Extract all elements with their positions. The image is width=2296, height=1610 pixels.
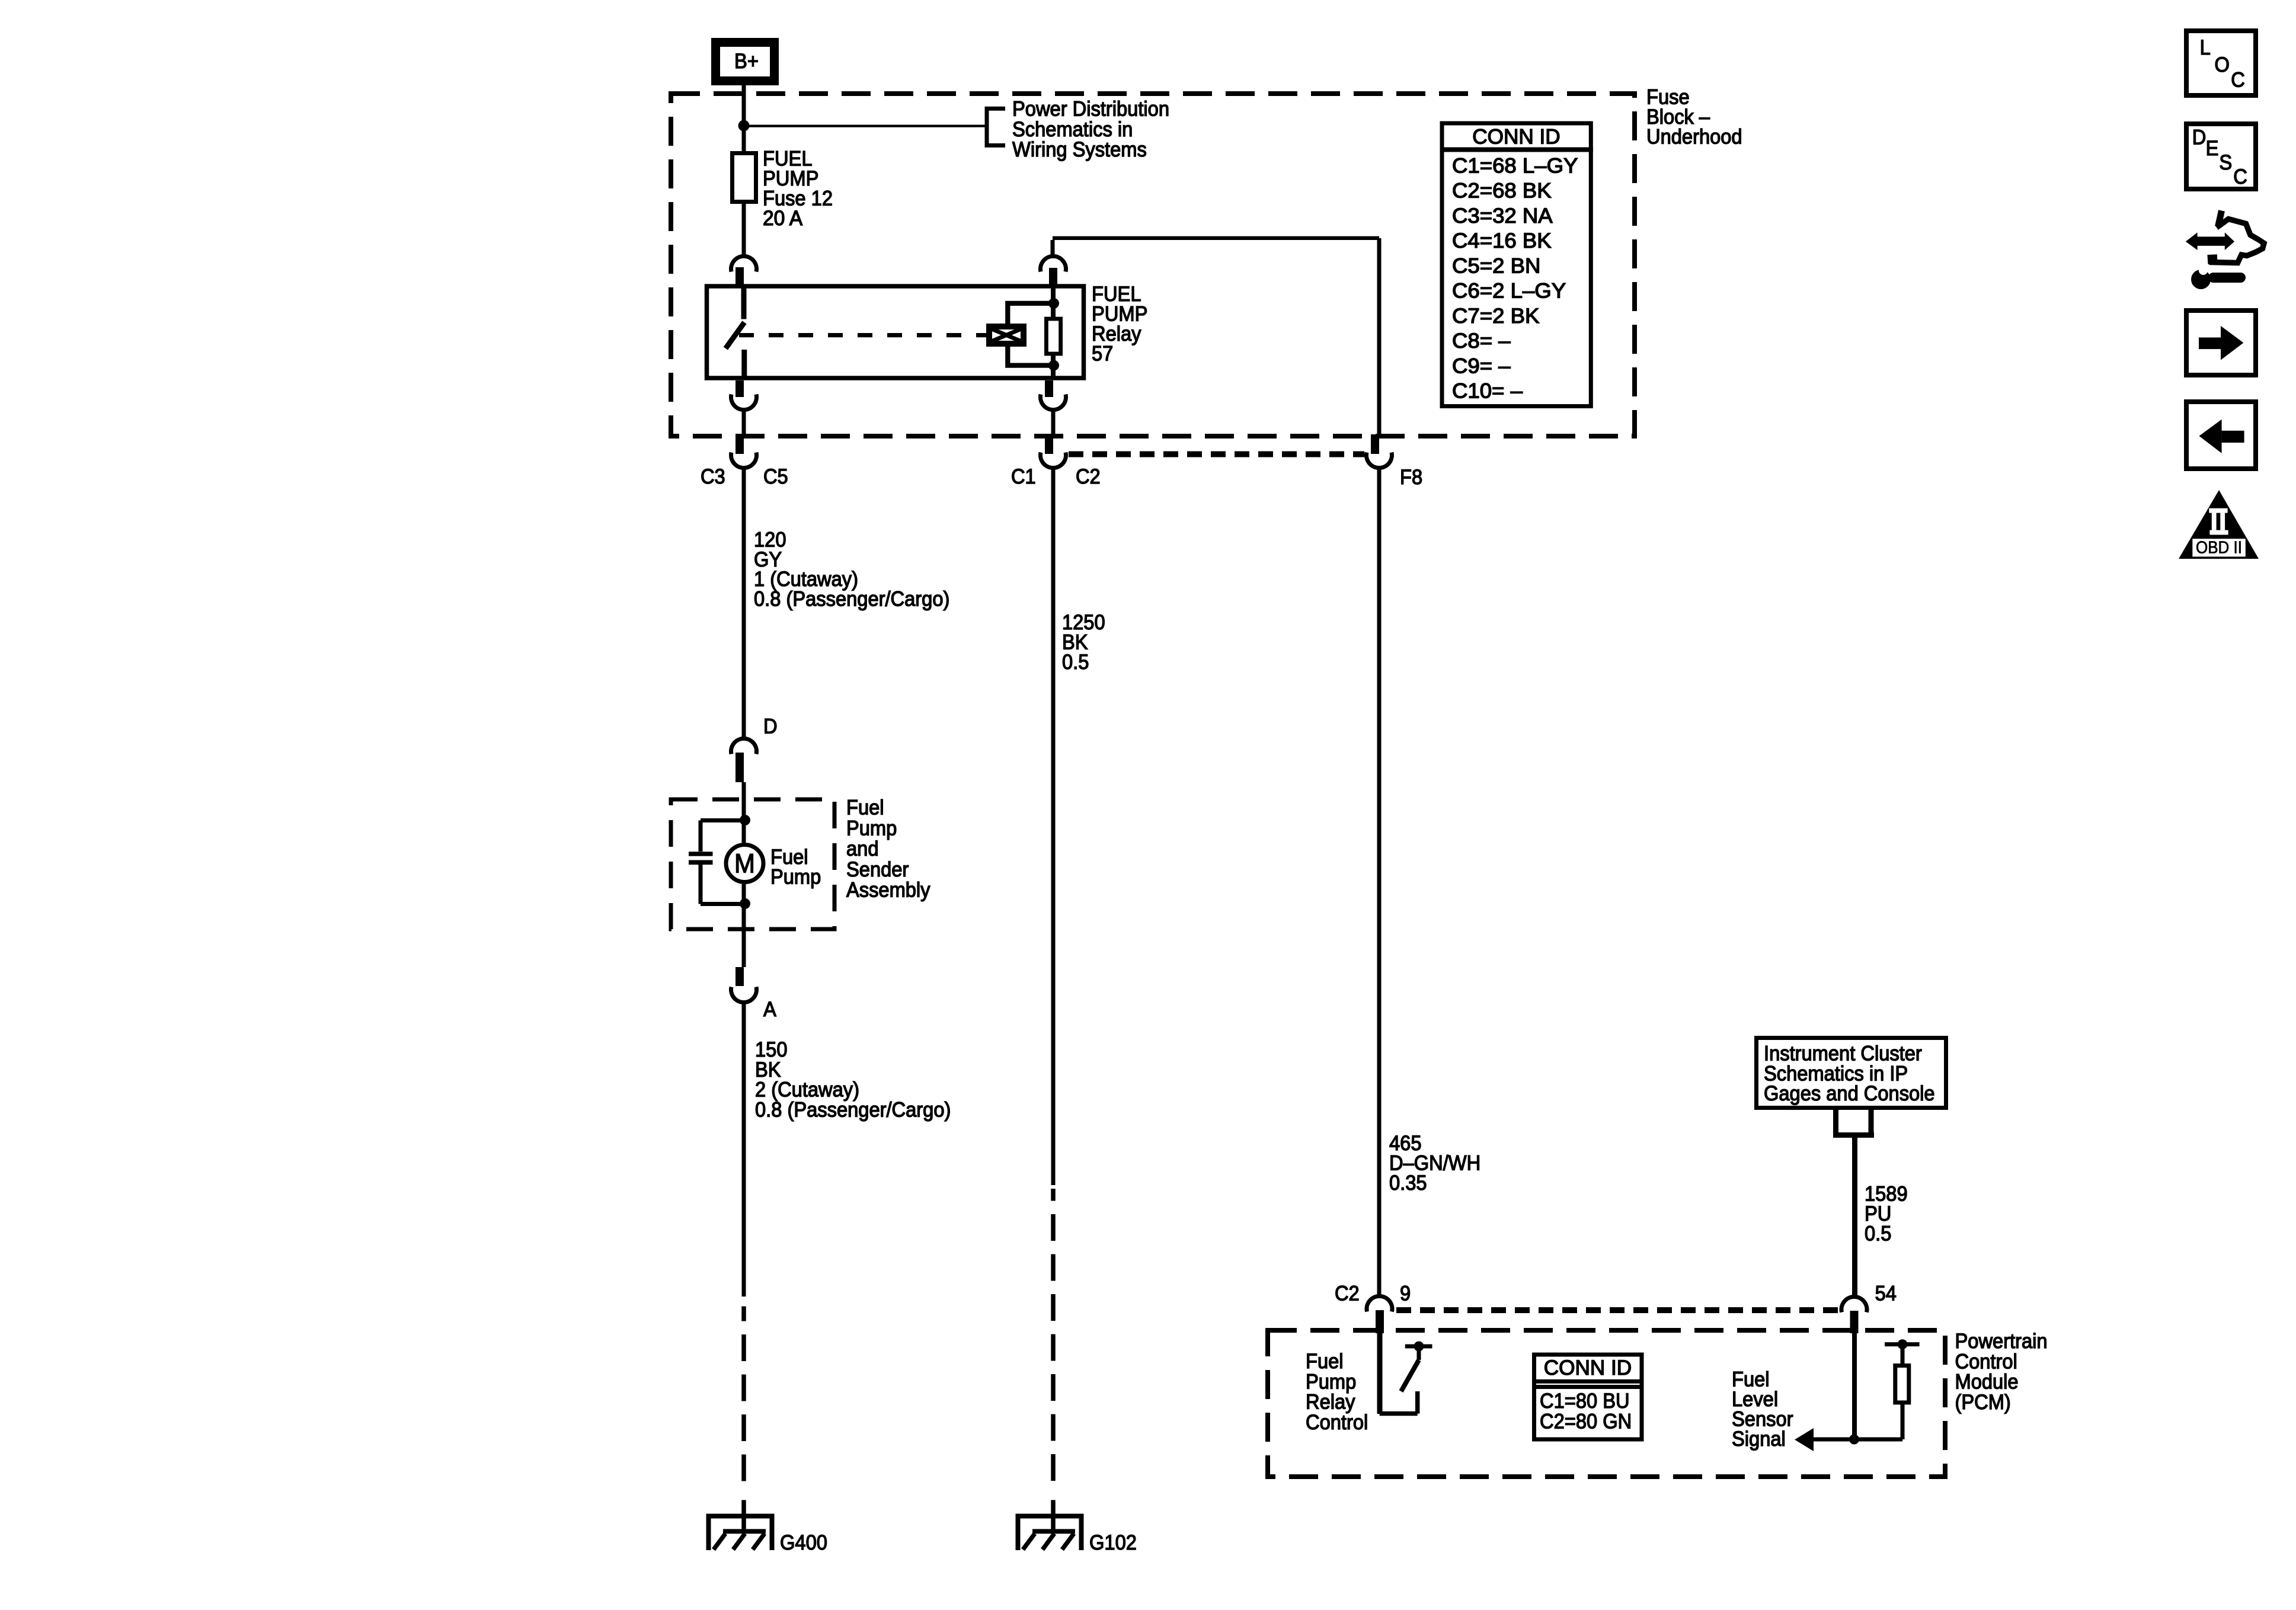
svg-text:Assembly: Assembly	[846, 878, 930, 902]
svg-text:C6=2 L–GY: C6=2 L–GY	[1452, 279, 1566, 303]
svg-text:C3: C3	[701, 465, 725, 488]
svg-text:C5=2 BN: C5=2 BN	[1452, 254, 1540, 277]
svg-text:9: 9	[1400, 1282, 1411, 1305]
svg-text:(PCM): (PCM)	[1955, 1390, 2011, 1414]
svg-text:Signal: Signal	[1732, 1427, 1786, 1451]
svg-text:Underhood: Underhood	[1646, 125, 1742, 149]
svg-text:0.8 (Passenger/Cargo): 0.8 (Passenger/Cargo)	[754, 587, 949, 611]
svg-text:Wiring Systems: Wiring Systems	[1012, 137, 1147, 161]
svg-text:F8: F8	[1400, 465, 1422, 489]
svg-text:G400: G400	[780, 1531, 827, 1554]
svg-text:G102: G102	[1089, 1531, 1137, 1554]
svg-text:C2=68 BK: C2=68 BK	[1452, 179, 1552, 203]
svg-text:Control: Control	[1306, 1410, 1368, 1434]
svg-text:54: 54	[1875, 1282, 1897, 1305]
svg-text:0.8 (Passenger/Cargo): 0.8 (Passenger/Cargo)	[755, 1097, 951, 1121]
svg-text:C3=32 NA: C3=32 NA	[1452, 204, 1553, 228]
svg-text:A: A	[763, 997, 776, 1021]
svg-text:C: C	[2231, 68, 2245, 92]
svg-text:B+: B+	[734, 49, 759, 73]
svg-text:L: L	[2200, 36, 2211, 59]
svg-text:C9= –: C9= –	[1452, 354, 1511, 377]
svg-text:Gages and Console: Gages and Console	[1764, 1081, 1935, 1105]
svg-text:C1=68 L–GY: C1=68 L–GY	[1452, 153, 1578, 177]
svg-text:C2: C2	[1335, 1282, 1360, 1305]
svg-text:0.35: 0.35	[1389, 1171, 1427, 1195]
svg-text:C5: C5	[763, 465, 788, 488]
svg-text:0.5: 0.5	[1865, 1221, 1891, 1245]
svg-text:OBD II: OBD II	[2196, 539, 2242, 558]
svg-text:57: 57	[1092, 342, 1113, 366]
svg-text:Pump: Pump	[770, 865, 821, 889]
svg-text:E: E	[2206, 136, 2219, 160]
svg-text:CONN ID: CONN ID	[1544, 1356, 1632, 1379]
svg-text:D: D	[763, 715, 778, 738]
svg-text:O: O	[2215, 53, 2230, 76]
svg-text:C8= –: C8= –	[1452, 329, 1511, 353]
svg-text:C7=2 BK: C7=2 BK	[1452, 304, 1540, 328]
svg-text:D: D	[2192, 125, 2207, 149]
svg-text:C2: C2	[1076, 465, 1101, 488]
svg-text:20 A: 20 A	[763, 206, 802, 230]
svg-text:M: M	[734, 849, 755, 879]
svg-text:C4=16 BK: C4=16 BK	[1452, 229, 1552, 252]
svg-text:C2=80 GN: C2=80 GN	[1540, 1409, 1632, 1433]
svg-text:C1: C1	[1011, 465, 1036, 488]
svg-text:0.5: 0.5	[1062, 650, 1089, 674]
svg-text:C: C	[2233, 165, 2247, 188]
svg-text:C10= –: C10= –	[1452, 379, 1523, 403]
svg-text:CONN ID: CONN ID	[1472, 125, 1560, 149]
svg-text:S: S	[2219, 151, 2232, 174]
